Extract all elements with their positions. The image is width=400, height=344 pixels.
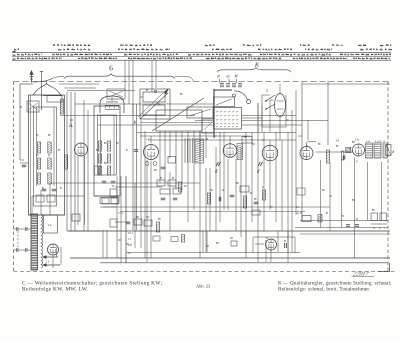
svg-text:a: a [20, 104, 22, 109]
svg-text:1.C: 1.C [146, 137, 151, 141]
svg-text:L9: L9 [366, 140, 370, 144]
svg-text:L4: L4 [48, 223, 52, 227]
svg-text:T14: T14 [118, 211, 123, 215]
svg-text:3: 3 [266, 89, 268, 93]
svg-text:KL4: KL4 [128, 232, 134, 235]
svg-text:K: K [254, 62, 260, 69]
svg-text:A: A [69, 123, 74, 129]
svg-text:L6: L6 [298, 134, 302, 138]
svg-text:O: O [227, 74, 230, 79]
svg-text:6: 6 [109, 64, 113, 73]
svg-text:Reihenfolge KW, MW, LW.: Reihenfolge KW, MW, LW. [22, 285, 88, 292]
svg-text:L8: L8 [336, 139, 340, 143]
svg-text:KB: KB [128, 244, 132, 247]
svg-text:P: P [216, 74, 220, 79]
svg-text:Abb. 23: Abb. 23 [196, 283, 211, 288]
svg-text:Reihenfolge: schmal, breit, To: Reihenfolge: schmal, breit, Tonabnehmer. [278, 285, 370, 292]
svg-text:C0: C0 [20, 158, 24, 162]
svg-text:L10 L11: L10 L11 [375, 140, 386, 144]
svg-text:L6: L6 [355, 138, 359, 142]
